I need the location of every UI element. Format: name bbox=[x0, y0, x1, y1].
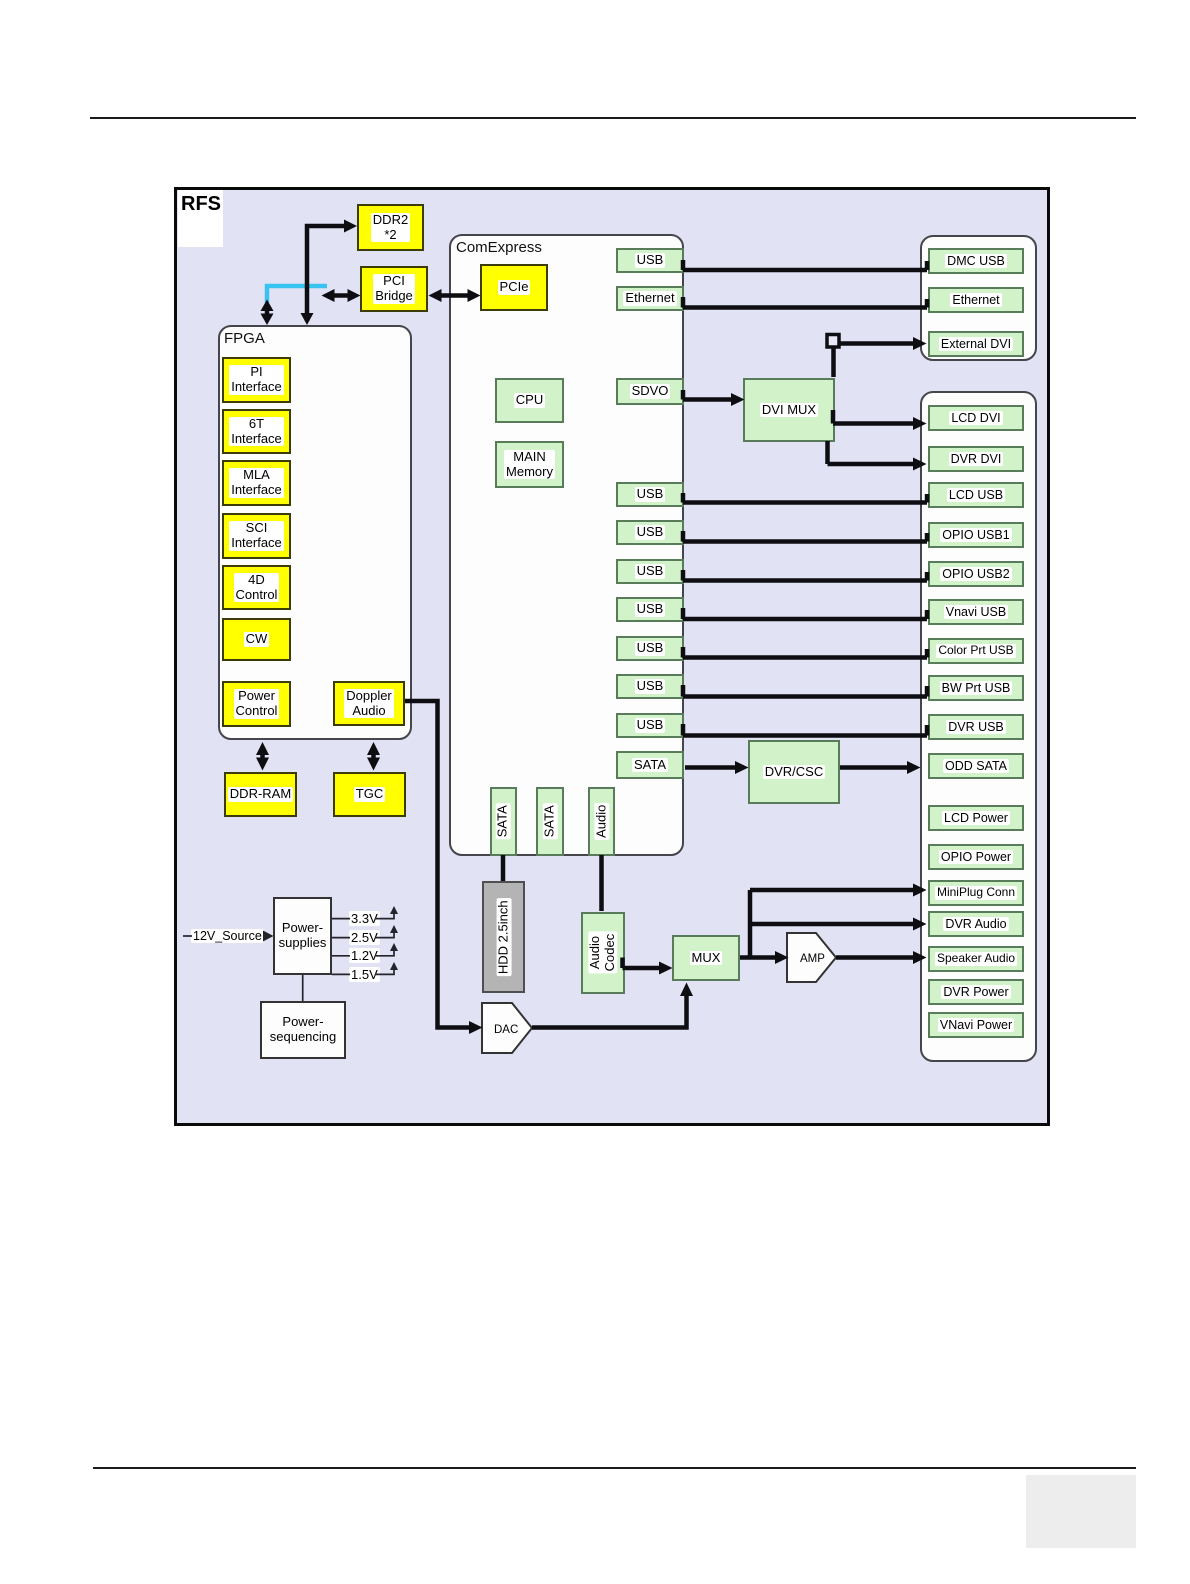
wire Ethernet to Ethernet bbox=[683, 297, 927, 308]
block LCD Power bbox=[928, 805, 1024, 831]
wire DVR/CSC to ODD SATA bbox=[840, 761, 921, 774]
wire PCI Bridge to PCIe double arrow bbox=[429, 289, 481, 302]
wire USB to OPIO USB1 bbox=[683, 531, 927, 542]
wire cyan FPGA-PCIBridge bbox=[267, 286, 327, 303]
wire AMP to Speaker Audio bbox=[836, 951, 927, 964]
port USB8 bbox=[616, 713, 684, 738]
block HDD 2.5inch bbox=[482, 881, 525, 993]
wire Audio Codec to MUX bbox=[623, 958, 673, 975]
wire FPGA to DDR2 bbox=[301, 220, 358, 326]
wire USB to DMC USB bbox=[683, 260, 927, 270]
wire USB to Color Prt USB bbox=[683, 647, 927, 658]
block VNavi Power bbox=[928, 1012, 1024, 1038]
wire MUX to AMP with junction bbox=[740, 951, 789, 964]
block Ethernet out bbox=[928, 287, 1024, 313]
top rule bbox=[90, 117, 1136, 119]
block CW bbox=[222, 618, 291, 661]
wire junction to MiniPlug Conn bbox=[750, 884, 927, 897]
port Ethernet bbox=[616, 286, 684, 311]
block Power Control bbox=[222, 681, 291, 727]
svg-text:DAC: DAC bbox=[494, 1024, 518, 1036]
wire FPGA to TGC double arrow bbox=[367, 742, 380, 771]
port USB3 bbox=[616, 520, 684, 545]
block DVI MUX bbox=[743, 378, 835, 442]
block PCI Bridge bbox=[360, 266, 428, 312]
wire SATA to HDD bbox=[501, 855, 506, 881]
wire USB to BW Prt USB bbox=[683, 685, 927, 697]
block 6T Interface bbox=[222, 409, 291, 454]
wire link to PCI Bridge double arrow bbox=[322, 289, 361, 302]
block ODD SATA bbox=[928, 753, 1024, 779]
wire Doppler Audio to DAC bbox=[405, 701, 483, 1034]
block Color Prt USB bbox=[928, 638, 1024, 664]
block DDR-RAM bbox=[224, 772, 297, 817]
block MUX bbox=[672, 935, 740, 981]
block SCI Interface bbox=[222, 513, 291, 559]
port USB1 bbox=[616, 248, 684, 273]
svg-text:AMP: AMP bbox=[800, 953, 825, 965]
wire USB to Vnavi USB bbox=[683, 608, 927, 619]
container right group 1 bbox=[920, 235, 1037, 361]
wire SATA to DVR/CSC bbox=[685, 761, 749, 774]
block External DVI bbox=[928, 331, 1024, 357]
port SDVO bbox=[616, 378, 684, 405]
port SATA v2 bbox=[536, 787, 564, 856]
wire Power-supplies to Power-sequencing bbox=[302, 975, 304, 1001]
wire FPGA to DDR-RAM double arrow bbox=[256, 742, 269, 771]
block DVR Audio bbox=[928, 911, 1024, 937]
block BW Prt USB bbox=[928, 675, 1024, 701]
label 1.5V bbox=[349, 967, 380, 982]
block TGC bbox=[333, 772, 406, 817]
block PI Interface bbox=[222, 357, 291, 403]
diagram background RFS bbox=[174, 187, 1050, 1126]
label 1.2V bbox=[349, 948, 380, 963]
container right group 2 bbox=[920, 391, 1037, 1062]
block Vnavi USB bbox=[928, 599, 1024, 625]
block DVR USB bbox=[928, 714, 1024, 740]
block Doppler Audio bbox=[333, 681, 405, 726]
block DMC USB bbox=[928, 248, 1024, 274]
shape DAC bbox=[481, 1002, 535, 1056]
wire junction to DVR Audio bbox=[750, 918, 927, 931]
block MAIN Memory bbox=[495, 441, 564, 488]
block LCD USB bbox=[928, 482, 1024, 508]
wire junction vertical bbox=[748, 890, 753, 958]
wire node square to DVI MUX bbox=[831, 347, 836, 377]
wire DVI MUX to LCD DVI bbox=[833, 410, 927, 430]
block Power-sequencing bbox=[260, 1001, 346, 1059]
port USB7 bbox=[616, 674, 684, 699]
block MiniPlug Conn bbox=[928, 880, 1024, 906]
wire USB to LCD USB bbox=[683, 493, 927, 503]
block OPIO USB1 bbox=[928, 522, 1024, 548]
block OPIO Power bbox=[928, 844, 1024, 870]
port SATA bbox=[616, 751, 684, 779]
wire FPGA vertical double arrow bbox=[261, 300, 274, 326]
block MLA Interface bbox=[222, 460, 291, 506]
container FPGA bbox=[218, 325, 412, 740]
wire 1.2V rail bbox=[332, 943, 398, 956]
block Speaker Audio bbox=[928, 946, 1024, 972]
block OPIO USB2 bbox=[928, 561, 1024, 587]
block PCIe bbox=[480, 264, 548, 311]
block CPU bbox=[495, 378, 564, 423]
port SATA v1 bbox=[490, 787, 517, 856]
label 2.5V bbox=[349, 930, 380, 945]
block Power-supplies bbox=[273, 897, 332, 975]
block DVR DVI bbox=[928, 446, 1024, 472]
wire 2.5V rail bbox=[332, 925, 398, 938]
port USB5 bbox=[616, 597, 684, 622]
wire USB to OPIO USB2 bbox=[683, 570, 927, 581]
block DDR2 bbox=[357, 204, 424, 251]
wire DAC to MUX bbox=[532, 983, 693, 1028]
port Audio v bbox=[588, 787, 615, 856]
wire 1.5V rail bbox=[332, 962, 398, 974]
port USB2 bbox=[616, 482, 684, 507]
wire DVI MUX to DVR DVI bbox=[828, 441, 927, 471]
wire 12V dash bbox=[183, 935, 192, 937]
block DVR Power bbox=[928, 979, 1024, 1005]
port USB4 bbox=[616, 559, 684, 584]
label 3.3V bbox=[349, 911, 380, 926]
footer gray box bbox=[1026, 1475, 1136, 1548]
label 12V_Source bbox=[191, 929, 264, 943]
block DVR/CSC bbox=[748, 740, 840, 804]
bottom rule bbox=[93, 1467, 1136, 1469]
block 4D Control bbox=[222, 565, 291, 610]
block Audio Codec bbox=[581, 912, 625, 994]
wire SDVO to DVI MUX bbox=[683, 390, 745, 406]
node square bbox=[827, 335, 839, 348]
wire USB to DVR USB bbox=[683, 724, 927, 736]
arrow 12V into Power-supplies bbox=[263, 931, 274, 942]
wire Audio to Audio Codec bbox=[599, 855, 604, 911]
wire node square to External DVI bbox=[839, 337, 927, 350]
wire 3.3V rail bbox=[332, 906, 398, 919]
port USB6 bbox=[616, 636, 684, 661]
RFS title bbox=[178, 190, 223, 247]
block LCD DVI bbox=[928, 405, 1024, 431]
shape AMP bbox=[786, 932, 838, 984]
container ComExpress bbox=[449, 234, 684, 856]
